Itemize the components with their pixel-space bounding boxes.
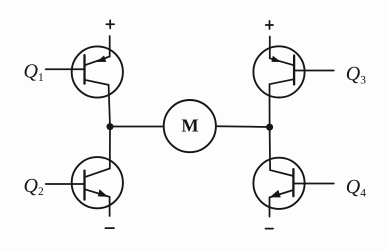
svg-text:Q1: Q1 — [24, 61, 44, 84]
svg-text:M: M — [181, 116, 198, 136]
svg-text:Q3: Q3 — [346, 63, 366, 86]
svg-text:Q4: Q4 — [346, 176, 366, 199]
svg-text:Q2: Q2 — [24, 175, 44, 198]
